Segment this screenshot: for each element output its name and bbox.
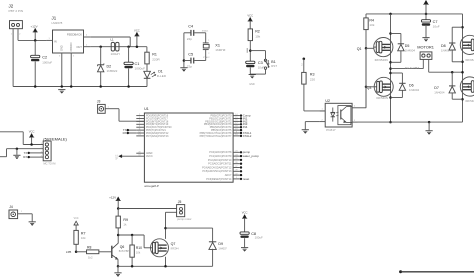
- svg-text:J1: J1: [52, 15, 57, 20]
- svg-text:D2: D2: [107, 64, 112, 68]
- svg-text:X1: X1: [215, 43, 220, 47]
- svg-text:C7: C7: [433, 20, 438, 24]
- svg-text:1N4007: 1N4007: [218, 248, 227, 251]
- svg-text:+12V: +12V: [109, 196, 116, 200]
- svg-text:RST: RST: [271, 64, 277, 68]
- svg-text:R8: R8: [87, 246, 91, 250]
- svg-text:10k: 10k: [255, 34, 260, 38]
- svg-text:C3: C3: [258, 61, 263, 65]
- svg-text:ON/OFF: ON/OFF: [70, 42, 73, 52]
- svg-text:water_pump: water_pump: [243, 154, 259, 158]
- svg-text:R3: R3: [310, 73, 315, 77]
- svg-text:C4: C4: [188, 25, 193, 29]
- svg-text:VCC: VCC: [247, 13, 253, 17]
- svg-text:1000uF: 1000uF: [135, 67, 146, 71]
- svg-text:J4: J4: [9, 205, 13, 209]
- svg-text:1k: 1k: [123, 222, 127, 226]
- svg-text:ADC7: ADC7: [225, 174, 232, 177]
- svg-text:IN: IN: [54, 39, 57, 43]
- svg-text:OUT: OUT: [76, 45, 82, 49]
- svg-text:GND: GND: [249, 83, 255, 86]
- svg-text:1: 1: [178, 203, 179, 205]
- svg-text:XTAL2: XTAL2: [243, 134, 252, 138]
- svg-text:VCC: VCC: [242, 211, 248, 215]
- svg-text:C1: C1: [135, 62, 140, 66]
- svg-text:D7: D7: [434, 86, 439, 90]
- svg-text:PC5(ADC5/SCL)PCINT13: PC5(ADC5/SCL)PCINT13: [202, 170, 232, 173]
- svg-text:LM2678: LM2678: [52, 21, 63, 25]
- svg-text:IRF540: IRF540: [466, 99, 474, 103]
- svg-text:Q6: Q6: [120, 245, 125, 249]
- svg-text:R9: R9: [123, 218, 128, 222]
- svg-text:220: 220: [310, 77, 315, 81]
- svg-text:reset: reset: [243, 177, 250, 181]
- svg-text:inPB: inPB: [66, 250, 72, 254]
- svg-text:PC0(ADC0)PCINT8: PC0(ADC0)PCINT8: [209, 151, 232, 154]
- svg-text:PB7(TOSC2/XTAL2)PCINT7: PB7(TOSC2/XTAL2)PCINT7: [200, 135, 232, 138]
- svg-text:1N4004: 1N4004: [405, 48, 416, 52]
- svg-text:J2: J2: [9, 3, 14, 8]
- svg-text:22p: 22p: [187, 65, 192, 69]
- svg-text:RX: RX: [123, 131, 127, 135]
- svg-text:1N4004: 1N4004: [409, 88, 420, 92]
- svg-text:1000uF: 1000uF: [42, 60, 52, 64]
- svg-text:+12V: +12V: [31, 24, 38, 28]
- svg-text:PC1(ADC1)PCINT9: PC1(ADC1)PCINT9: [209, 155, 232, 158]
- svg-text:10k: 10k: [81, 236, 86, 240]
- svg-text:R10: R10: [136, 246, 142, 250]
- svg-text:1N5822: 1N5822: [107, 69, 118, 73]
- svg-text:XTAL1: XTAL1: [202, 29, 209, 32]
- svg-text:Q7: Q7: [171, 242, 176, 246]
- svg-text:PBT 2 PIN: PBT 2 PIN: [9, 9, 24, 13]
- svg-text:IRF540N: IRF540N: [376, 96, 388, 100]
- svg-text:PLUG PBT: PLUG PBT: [405, 66, 420, 70]
- svg-text:R1: R1: [152, 53, 157, 57]
- svg-text:1N4004: 1N4004: [434, 90, 445, 94]
- svg-text:L1: L1: [111, 38, 115, 42]
- svg-text:IN4: IN4: [243, 125, 248, 129]
- svg-text:BC547BP: BC547BP: [119, 251, 130, 253]
- svg-text:PC2(ADC2)PCINT10: PC2(ADC2)PCINT10: [208, 159, 232, 162]
- svg-text:R2: R2: [255, 30, 260, 34]
- svg-text:C2: C2: [42, 55, 47, 59]
- svg-text:D9: D9: [218, 242, 223, 246]
- svg-text:MC TO IM: MC TO IM: [44, 161, 56, 165]
- svg-text:PD7(AIN1)PCINT23: PD7(AIN1)PCINT23: [146, 135, 169, 138]
- svg-text:D6: D6: [409, 83, 414, 87]
- svg-text:100uF: 100uF: [255, 236, 263, 240]
- svg-text:AVCC: AVCC: [146, 155, 153, 158]
- svg-text:U1: U1: [144, 107, 149, 111]
- svg-text:IRFZ44: IRFZ44: [171, 247, 180, 250]
- svg-text:100uH: 100uH: [111, 52, 120, 56]
- svg-text:VCC: VCC: [134, 28, 140, 32]
- svg-text:XTAL2: XTAL2: [203, 56, 210, 59]
- svg-text:RX: RX: [23, 155, 27, 159]
- svg-text:FEEDBACK: FEEDBACK: [67, 32, 82, 36]
- svg-text:R4: R4: [369, 18, 374, 22]
- svg-text:IRF9540: IRF9540: [466, 58, 474, 62]
- svg-text:VCC: VCC: [117, 154, 119, 159]
- svg-text:C5: C5: [188, 52, 193, 56]
- svg-text:PC6(RESET)PCINT14: PC6(RESET)PCINT14: [206, 178, 232, 181]
- svg-text:1k2: 1k2: [88, 255, 93, 259]
- svg-text:R-LED: R-LED: [157, 74, 167, 78]
- svg-text:16MHZ: 16MHZ: [215, 48, 225, 52]
- svg-text:D5: D5: [405, 44, 410, 48]
- svg-text:D1: D1: [158, 70, 163, 74]
- svg-text:Q3: Q3: [367, 86, 372, 90]
- svg-text:U2: U2: [325, 99, 330, 103]
- svg-text:Q1: Q1: [357, 47, 362, 51]
- svg-text:220R: 220R: [152, 57, 160, 61]
- svg-text:1N4004: 1N4004: [441, 48, 452, 52]
- svg-text:10uF: 10uF: [433, 25, 440, 29]
- svg-text:J3: J3: [97, 100, 101, 104]
- svg-text:MOTOR1: MOTOR1: [417, 44, 434, 49]
- svg-text:pump motor: pump motor: [177, 217, 191, 221]
- svg-text:VCC: VCC: [29, 129, 35, 133]
- svg-text:R7: R7: [81, 231, 86, 235]
- svg-text:VCC: VCC: [74, 218, 79, 220]
- svg-text:atmega8-P: atmega8-P: [144, 184, 159, 188]
- svg-text:PC4(ADC4/SDA)PCINT12: PC4(ADC4/SDA)PCINT12: [202, 166, 232, 169]
- svg-text:D8: D8: [441, 44, 446, 48]
- svg-text:GND: GND: [61, 45, 64, 51]
- svg-text:22p: 22p: [187, 37, 192, 41]
- svg-text:10k: 10k: [369, 23, 374, 27]
- svg-text:10k: 10k: [136, 251, 141, 255]
- svg-text:PC3(ADC3)PCINT11: PC3(ADC3)PCINT11: [208, 163, 232, 166]
- svg-text:PC817: PC817: [326, 128, 336, 132]
- svg-text:IRF9540N: IRF9540N: [375, 58, 388, 62]
- svg-text:10uF: 10uF: [258, 65, 265, 69]
